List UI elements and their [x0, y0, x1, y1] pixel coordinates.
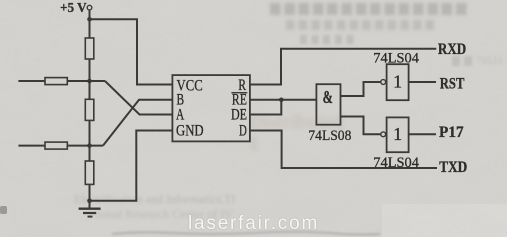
pin label R — [238, 77, 246, 94]
node: lower junction — [87, 143, 92, 148]
bleed-through heading middle — [250, 112, 345, 156]
wire: upper left input stub — [18, 80, 45, 82]
svg-text:74LS08: 74LS08 — [308, 128, 351, 144]
resistor R4 (upper horizontal) — [45, 78, 67, 85]
resistor R3 (bottom vertical) — [85, 161, 94, 184]
wire: DE tie-up — [250, 100, 281, 115]
net label RST — [440, 76, 465, 93]
svg-text:RXD: RXD — [438, 41, 466, 58]
wire: AND out to bottom inverter — [341, 117, 381, 135]
svg-text:DE: DE — [231, 106, 247, 123]
svg-text:&: & — [323, 87, 333, 107]
label 74LS04 (bottom) — [373, 155, 419, 171]
paper blotch overlay — [0, 0, 1, 1]
bleed-through text top right — [270, 3, 470, 15]
pin label D — [239, 122, 247, 139]
svg-text:D: D — [239, 122, 247, 139]
svg-text:P17: P17 — [439, 124, 464, 141]
node: upper junction — [87, 79, 92, 84]
node: RE/DE tie junction — [279, 98, 284, 103]
resistor R5 (lower horizontal) — [45, 142, 67, 149]
inverter U4 74LS04 (bottom) box — [387, 117, 409, 152]
inverter U4 74LS04 (bottom) input bubble — [381, 132, 386, 137]
net label TXD — [439, 159, 467, 176]
svg-text:1: 1 — [393, 124, 402, 144]
wire: upper wire to junction — [67, 80, 105, 82]
wire: lower left input stub — [18, 145, 45, 147]
wire: AND out to top inverter — [341, 82, 381, 96]
+5V terminal circle — [87, 5, 92, 10]
label 74LS08 — [308, 128, 351, 144]
wire: GND pin down to ground — [90, 131, 173, 201]
svg-text:A: A — [176, 106, 185, 123]
svg-text:+5 V: +5 V — [60, 0, 87, 15]
svg-text:RST: RST — [440, 76, 465, 93]
resistor R2 (middle vertical) — [85, 99, 94, 120]
pin label VCC — [177, 77, 203, 94]
wire: diagonal lower-to-B — [103, 100, 172, 146]
ground symbol — [79, 209, 101, 217]
svg-text:GND: GND — [176, 122, 204, 139]
wire: +5V vertical rail — [89, 10, 91, 209]
wire: +5V feed to VCC — [90, 19, 173, 84]
node: +5V junction — [87, 17, 92, 22]
wire: bottom inverter output to P17 — [409, 133, 436, 135]
pin label GND — [176, 122, 204, 139]
pin label DE — [231, 106, 247, 123]
svg-text:74LS04: 74LS04 — [373, 155, 419, 171]
+5 V label — [60, 0, 87, 15]
wire: lower wire to junction — [67, 145, 103, 147]
node: ground junction — [87, 198, 92, 203]
wire: top inverter output to RST — [409, 81, 436, 83]
resistor R1 (top vertical) — [85, 38, 94, 59]
net label RXD — [438, 41, 466, 58]
pin label RE with overline — [231, 91, 247, 108]
inverter U3 74LS04 (top) box — [387, 64, 409, 100]
wire: diagonal upper-to-A — [105, 81, 172, 115]
light patch bottom right — [382, 204, 507, 237]
left edge smudge — [0, 206, 7, 214]
pin label A — [176, 106, 185, 123]
net label P17 — [439, 124, 464, 141]
bleed-through text bottom left — [74, 192, 235, 207]
svg-text:TXD: TXD — [439, 159, 467, 176]
op-amp U1 transceiver box (MAX485) — [172, 75, 250, 141]
inverter U3 74LS04 (top) input bubble — [381, 80, 386, 85]
wire: RE to AND gate input — [250, 99, 317, 101]
AND gate U2 74LS08 — [316, 84, 340, 125]
wire: R output to RXD — [250, 49, 436, 85]
label 74LS04 (top) — [373, 50, 419, 66]
bottom edge smudge line — [112, 232, 380, 235]
svg-text:74LS04: 74LS04 — [373, 50, 419, 66]
watermark laserfair.com — [188, 213, 333, 235]
paper noise overlay — [0, 0, 1, 1]
pin label B — [177, 91, 185, 108]
wire: D down to TXD — [250, 131, 437, 169]
svg-text:1: 1 — [393, 72, 402, 92]
